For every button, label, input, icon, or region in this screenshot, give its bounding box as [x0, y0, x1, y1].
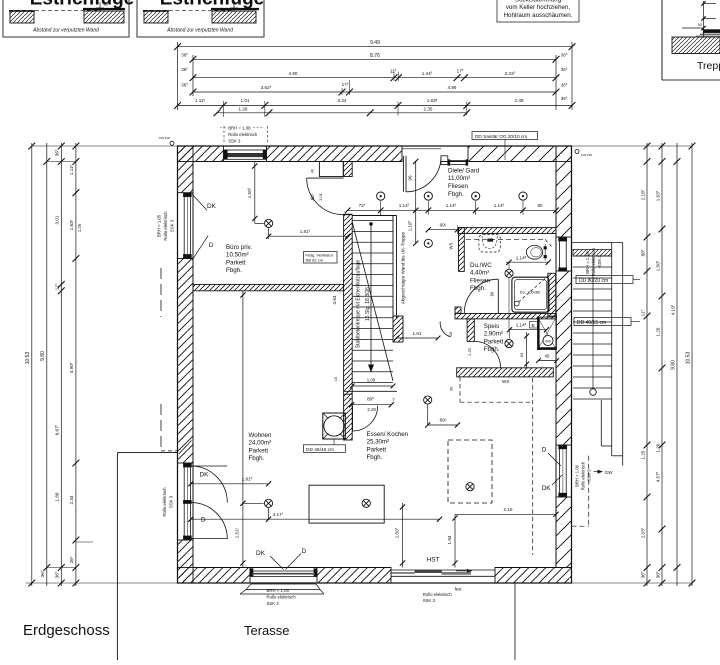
dashed plot line right: [588, 456, 590, 526]
svg-text:Fbgh.: Fbgh.: [367, 454, 383, 461]
outer boundary: [178, 146, 572, 583]
svg-text:SSK 3: SSK 3: [169, 219, 174, 232]
stair cut diagonal: [352, 222, 393, 381]
left dim chain detail D: [75, 143, 77, 586]
exterior stair treads: [573, 256, 612, 399]
right dim chain 10.53: [691, 143, 693, 586]
svg-text:1.26: 1.26: [655, 327, 660, 336]
window top (Buero) with roller: [224, 150, 266, 159]
light stair top: [377, 192, 385, 200]
toilet: [526, 245, 542, 259]
chimney: [323, 413, 346, 439]
svg-text:9.80: 9.80: [670, 360, 676, 370]
entry door dim 96: [415, 161, 417, 244]
outer wall top-right corner block: [556, 146, 572, 162]
light Diele 1: [424, 192, 432, 200]
svg-text:BRH = 1.48⁵: BRH = 1.48⁵: [585, 250, 590, 274]
top dimension chain row 3.62 / 17 / 4.96: [193, 91, 556, 93]
svg-text:2.34: 2.34: [69, 495, 74, 504]
light Buero: [265, 219, 273, 227]
svg-text:SSK 3: SSK 3: [423, 598, 436, 603]
svg-text:Parkett: Parkett: [484, 338, 504, 345]
KW 100 marker right: [575, 150, 579, 154]
svg-text:Rollo elektrisch: Rollo elektrisch: [423, 592, 453, 597]
stair treads: [352, 221, 393, 383]
svg-text:Fbgh.: Fbgh.: [226, 267, 242, 274]
interior wall W4 WC left: [459, 228, 465, 272]
hatched screed left: [10, 11, 34, 23]
svg-text:2.35: 2.35: [424, 106, 433, 111]
svg-text:Fbgh.: Fbgh.: [470, 285, 486, 292]
svg-text:Abstand zur verputzten Wand: Abstand zur verputzten Wand: [166, 28, 233, 34]
svg-text:Du. 100x80: Du. 100x80: [520, 290, 541, 295]
svg-text:Rollo elektrisch: Rollo elektrisch: [228, 132, 258, 137]
entry door: [402, 156, 404, 192]
svg-text:4.96: 4.96: [448, 85, 457, 90]
svg-text:WS: WS: [502, 379, 509, 384]
svg-text:10: 10: [104, 3, 108, 7]
detail dims: [703, 1, 705, 37]
svg-text:Wohnen: Wohnen: [249, 432, 272, 439]
mirror dashed line: [466, 238, 545, 240]
interior wall W3 Diele/WC top: [459, 228, 557, 234]
stair walking line: [370, 224, 372, 373]
svg-text:Fbgh.: Fbgh.: [448, 191, 464, 198]
KW 100 marker left: [170, 141, 174, 145]
svg-text:DD Sanitär OG 20/10 cm: DD Sanitär OG 20/10 cm: [475, 134, 527, 139]
svg-text:Hohlraum ausschäumen.: Hohlraum ausschäumen.: [504, 12, 573, 19]
svg-text:HST: HST: [427, 557, 440, 564]
svg-text:10.53: 10.53: [685, 352, 691, 365]
Wohnen window swing arcs: [191, 465, 228, 467]
top dimension chain row 9.49: [178, 46, 573, 48]
svg-text:Rollo elektrisch: Rollo elektrisch: [591, 247, 596, 276]
svg-text:1.94: 1.94: [447, 535, 452, 544]
light WC: [505, 269, 513, 277]
svg-text:3.64: 3.64: [332, 295, 337, 304]
frame corner diagonal: [179, 441, 192, 454]
svg-text:80: 80: [537, 203, 543, 208]
corridor 69 dim: [428, 229, 457, 231]
light Diele 3: [519, 192, 527, 200]
light Wohnen: [264, 499, 272, 507]
svg-text:1.26: 1.26: [77, 223, 82, 232]
svg-text:Stahlbetontreppe mit Eichenhol: Stahlbetontreppe mit Eichenholzauflage: [356, 260, 362, 349]
left dim chain 9.80: [46, 143, 48, 586]
svg-text:Fbgh.: Fbgh.: [484, 346, 500, 353]
svg-text:Du./WC: Du./WC: [470, 262, 492, 269]
dashed upper-floor line left: [160, 268, 162, 317]
hatched screed right: [84, 11, 124, 23]
svg-text:Trepp: Trepp: [697, 60, 720, 72]
top dimension chain row 1.11 / 1.01 / 3.24 / 1.63 / 2.49: [178, 105, 573, 107]
DD Sanitaer label: [472, 132, 538, 140]
svg-text:WS: WS: [449, 242, 454, 249]
svg-text:SSK 3: SSK 3: [228, 139, 241, 144]
Essen door at stair: [352, 406, 354, 431]
light island: [466, 483, 474, 491]
Wohnen dims: [242, 291, 244, 568]
svg-text:KW 100: KW 100: [581, 153, 592, 157]
window right WC: [559, 237, 561, 271]
exterior stair top hatched strip: [573, 250, 612, 257]
svg-text:2.25: 2.25: [468, 348, 472, 355]
svg-text:39: 39: [449, 386, 454, 391]
svg-text:Rollo elektrisch: Rollo elektrisch: [581, 461, 586, 490]
svg-text:8.76: 8.76: [370, 53, 380, 59]
light Speis: [505, 340, 513, 348]
window right Essen: [559, 445, 561, 497]
right dim top/bottom connectors: [572, 145, 693, 147]
svg-text:KW 100: KW 100: [159, 136, 170, 140]
svg-text:GW: GW: [605, 470, 614, 475]
svg-text:Terasse: Terasse: [244, 623, 290, 638]
svg-text:5: 5: [393, 397, 395, 401]
inner boundary: [193, 162, 556, 568]
light counter: [362, 499, 370, 507]
frame line bottom left: [117, 452, 177, 454]
corridor dim 1.01: [397, 337, 439, 339]
svg-text:B: B: [532, 323, 535, 328]
svg-text:Parkett: Parkett: [367, 446, 387, 453]
detail box Estrichfuge 1: [3, 0, 129, 37]
top dim vertical connectors: [177, 42, 179, 110]
svg-text:Abstand zur verputzten Wand: Abstand zur verputzten Wand: [32, 28, 99, 34]
chimney label DD 46/46: [303, 445, 345, 453]
WC dim 1.14: [506, 261, 548, 263]
Speis 63 dim: [526, 332, 528, 368]
svg-text:D: D: [302, 548, 307, 555]
svg-text:10,50m²: 10,50m²: [226, 252, 249, 259]
interior wall W7 Speis bottom / Essen top: [457, 368, 554, 377]
window left Buero: [183, 193, 185, 259]
svg-text:11,00m²: 11,00m²: [448, 175, 470, 182]
svg-text:Rollo elektrisch: Rollo elektrisch: [267, 594, 297, 599]
svg-text:Diele/ Gard: Diele/ Gard: [448, 167, 480, 174]
interior wall W1 stair left / Buero right: [319, 162, 343, 177]
section line bottom: [514, 582, 516, 660]
corridor door arc: [440, 322, 451, 337]
Buero door (in W1): [307, 177, 344, 179]
Diele light dim row: [348, 209, 556, 211]
washbasin (dashed): [479, 235, 500, 253]
exterior stair walking line: [592, 256, 594, 389]
svg-text:DK: DK: [542, 485, 552, 492]
joint arrow: [99, 2, 101, 12]
svg-text:-SSK 3: -SSK 3: [597, 255, 602, 269]
svg-text:26: 26: [449, 332, 453, 336]
floor finish black band: [703, 30, 720, 33]
svg-text:vom Keller hochziehen,: vom Keller hochziehen,: [506, 4, 571, 11]
svg-text:96: 96: [408, 175, 413, 181]
svg-text:45: 45: [545, 354, 550, 359]
svg-text:BRH = 1.08: BRH = 1.08: [228, 125, 251, 130]
svg-text:15 Stg. 18,8/26: 15 Stg. 18,8/26: [365, 287, 371, 321]
note box vom Keller hochziehen: [497, 0, 579, 22]
svg-text:1.26: 1.26: [655, 443, 660, 452]
svg-text:Parkett: Parkett: [226, 259, 246, 266]
entry canopy line: [402, 148, 441, 150]
right dim chain inner A: [646, 143, 648, 586]
interior wall W5 WC bottom / Speis top: [455, 314, 556, 319]
svg-text:96: 96: [490, 291, 495, 296]
svg-text:BRH = 1.05: BRH = 1.05: [157, 214, 162, 237]
svg-text:4.90: 4.90: [289, 71, 298, 76]
svg-text:BRH = 1.08: BRH = 1.08: [575, 464, 580, 486]
svg-text:DD 46/46 cm: DD 46/46 cm: [306, 447, 334, 453]
right dim chain inner B: [661, 143, 663, 586]
detail box Treppe: [661, 0, 663, 80]
left dim top/bottom connectors: [32, 145, 178, 147]
svg-text:DK: DK: [207, 203, 217, 210]
boxed label Ventilator: [304, 252, 338, 264]
label DD 80/20: [576, 276, 633, 284]
interior wall Speis left: [467, 319, 474, 342]
svg-text:2,90m²: 2,90m²: [484, 331, 503, 338]
outer wall bottom: [178, 568, 251, 584]
stair top boundary: [352, 215, 396, 217]
svg-text:Fliesen: Fliesen: [470, 277, 491, 284]
Essen dims: [427, 405, 429, 425]
svg-text:1.88: 1.88: [55, 492, 60, 501]
outer wall right: [556, 146, 572, 237]
detail box Estrichfuge 2: [137, 0, 264, 37]
svg-text:BRH = 1.08: BRH = 1.08: [267, 588, 290, 593]
top dimension chain row 8.76: [193, 58, 556, 60]
svg-text:63: 63: [519, 352, 524, 357]
svg-text:fest: fest: [455, 586, 463, 591]
boxed B label Speis: [530, 322, 538, 329]
svg-text:10.53: 10.53: [25, 352, 31, 365]
svg-text:9.49: 9.49: [370, 40, 380, 46]
label DD 40/15: [574, 318, 631, 326]
Speis dim 1.14: [510, 329, 547, 331]
svg-text:D: D: [542, 447, 547, 454]
hatched screed right: [212, 11, 256, 23]
entry sidelight glazing: [448, 160, 468, 162]
svg-text:9.80: 9.80: [40, 351, 46, 361]
svg-text:WS: WS: [545, 339, 551, 343]
top dimension chain row 1.26 / 2.35: [217, 112, 467, 114]
light Diele 2: [472, 192, 480, 200]
svg-text:Speis: Speis: [484, 323, 499, 330]
top dimension chain row 4.90 / 11 / 1.44 / 17 / 2.22: [193, 77, 556, 79]
svg-text:Abgeschrägte Wand bis UK-Trepp: Abgeschrägte Wand bis UK-Treppe: [401, 231, 406, 304]
svg-text:DK: DK: [200, 472, 210, 479]
entry jamb post: [441, 156, 448, 165]
svg-text:SSK 3: SSK 3: [168, 495, 173, 508]
window bottom (Terrasse door): [250, 570, 317, 572]
svg-text:3.01: 3.01: [55, 215, 60, 224]
window left Wohnen: [183, 463, 185, 540]
kitchen counter: [309, 485, 384, 523]
svg-text:1.01: 1.01: [318, 192, 323, 201]
WS dashed pipes: [459, 377, 461, 403]
stair bottom wall w/ door opening: [344, 390, 397, 392]
svg-text:2.29: 2.29: [367, 407, 376, 412]
interior wall W8 sloped wall at stair right: [392, 216, 394, 319]
svg-text:1.26: 1.26: [239, 106, 248, 111]
svg-text:50: 50: [698, 23, 702, 27]
outer wall top: [178, 146, 224, 162]
left dim chain detail C: [60, 143, 62, 586]
HST lift-slide door: [391, 569, 495, 571]
svg-text:SSK 3: SSK 3: [267, 601, 280, 606]
left dim chain 10.53: [31, 143, 33, 586]
svg-text:4,40m²: 4,40m²: [470, 270, 489, 277]
exterior stair enclosure: [600, 400, 602, 446]
svg-text:Parkett: Parkett: [249, 447, 269, 454]
svg-text:1.00: 1.00: [367, 378, 376, 383]
Speis door: [474, 341, 500, 367]
svg-text:2.49: 2.49: [515, 98, 524, 103]
svg-text:Erdgeschoss: Erdgeschoss: [23, 622, 110, 639]
Speis 45 dim: [539, 360, 557, 362]
svg-text:40: 40: [311, 169, 315, 173]
svg-text:1.01: 1.01: [413, 331, 422, 336]
Buero light dims: [254, 162, 256, 224]
svg-text:DD 80/20 cm: DD 80/20 cm: [579, 278, 608, 284]
svg-text:Büro priv.: Büro priv.: [226, 244, 252, 251]
svg-text:Fbgh.: Fbgh.: [249, 455, 265, 462]
svg-text:Sockeldämmung: Sockeldämmung: [515, 0, 562, 4]
svg-text:Rollo elektrisch: Rollo elektrisch: [162, 487, 167, 517]
shower: [512, 277, 549, 312]
terrace steps below window: [251, 583, 316, 585]
svg-text:DK: DK: [256, 550, 266, 557]
svg-text:1.25: 1.25: [640, 450, 645, 459]
svg-text:25,30m²: 25,30m²: [367, 439, 390, 446]
joint arrow: [233, 2, 235, 12]
svg-text:24,00m²: 24,00m²: [249, 440, 272, 447]
hatched screed left: [144, 11, 168, 23]
svg-text:D: D: [209, 242, 214, 249]
svg-text:5: 5: [349, 397, 351, 401]
interior wall W6 shower right pier: [548, 273, 556, 316]
svg-text:1.01: 1.01: [241, 98, 250, 103]
svg-text:3.24: 3.24: [338, 98, 347, 103]
svg-text:D: D: [201, 516, 206, 523]
svg-text:2.10: 2.10: [504, 507, 513, 512]
svg-text:NB 82 cm: NB 82 cm: [306, 258, 324, 263]
WS shaft: [538, 317, 557, 350]
GW arrow: [594, 471, 602, 473]
svg-text:Essen/ Kochen: Essen/ Kochen: [367, 431, 409, 438]
right dim chain 9.80: [676, 143, 678, 586]
light corridor: [424, 239, 432, 247]
interior wall W2 Buero/Wohnen: [193, 284, 344, 290]
svg-text:DD 40/15 cm: DD 40/15 cm: [577, 320, 606, 326]
svg-text:15: 15: [333, 376, 338, 381]
outer wall left: [178, 146, 194, 193]
svg-text:Rollo elektrisch: Rollo elektrisch: [163, 211, 168, 241]
floor slab hatch: [672, 37, 720, 54]
dashed furniture island: [448, 440, 492, 503]
WC door: [497, 279, 499, 313]
svg-text:Fliesen: Fliesen: [448, 183, 469, 190]
light Essen: [424, 396, 432, 404]
